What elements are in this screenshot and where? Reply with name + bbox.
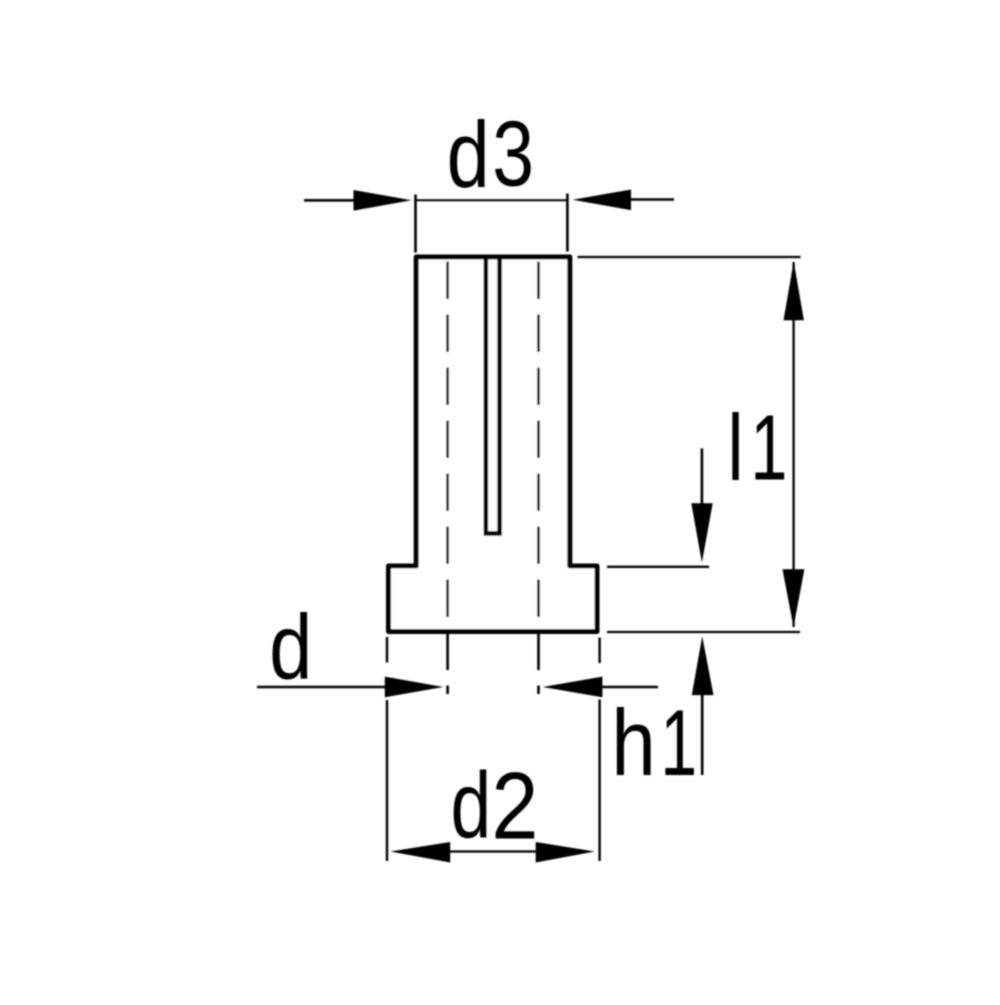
svg-text:3: 3 bbox=[492, 102, 534, 205]
slot bbox=[486, 256, 500, 534]
h1 upper arrow line bbox=[701, 448, 704, 505]
svg-text:d: d bbox=[269, 596, 312, 699]
svg-text:h: h bbox=[611, 691, 655, 795]
hidden line right bbox=[537, 262, 540, 695]
d3 left arrowhead bbox=[354, 190, 412, 211]
d3 left tail bbox=[304, 199, 356, 202]
svg-text:1: 1 bbox=[750, 397, 787, 501]
d right arrowhead bbox=[543, 677, 603, 698]
l1 bottom ext bbox=[607, 631, 800, 633]
d2 dim line bbox=[450, 850, 537, 852]
d3 ext left bbox=[414, 195, 417, 253]
svg-text:1: 1 bbox=[660, 692, 697, 796]
d3 ext right bbox=[566, 194, 569, 252]
d right tail bbox=[601, 686, 658, 689]
d2 left arrowhead bbox=[390, 842, 450, 863]
svg-text:d: d bbox=[451, 753, 492, 858]
h1 lower arrowhead bbox=[692, 636, 714, 695]
h1 step ext bbox=[607, 566, 709, 568]
l1 bottom arrowhead bbox=[783, 569, 805, 627]
body outline bbox=[389, 257, 598, 632]
l1 top ext bbox=[578, 256, 801, 258]
d2 right arrowhead bbox=[536, 842, 595, 863]
d3 right arrowhead bbox=[573, 190, 632, 211]
d2 ext right upper bbox=[598, 638, 600, 664]
svg-text:l: l bbox=[727, 395, 743, 500]
d2 ext left lower bbox=[386, 700, 388, 861]
svg-text:d: d bbox=[447, 103, 490, 208]
svg-text:2: 2 bbox=[491, 753, 538, 858]
d3 dim line bbox=[416, 199, 568, 201]
d left line bbox=[257, 686, 387, 689]
l1 top arrowhead bbox=[784, 262, 804, 321]
h1 upper arrowhead bbox=[691, 503, 712, 562]
l1 dim line bbox=[792, 262, 794, 627]
d left arrowhead bbox=[385, 677, 444, 698]
d3 right tail bbox=[630, 198, 674, 201]
d2 ext right lower bbox=[598, 700, 600, 862]
hidden line left bbox=[446, 262, 449, 695]
h1 lower arrow line bbox=[701, 693, 704, 775]
d2 ext left upper bbox=[386, 637, 388, 663]
